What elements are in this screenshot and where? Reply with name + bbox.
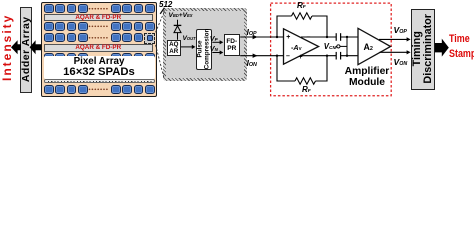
label VOP	[394, 26, 407, 35]
feedback wire bottom left	[277, 56, 295, 81]
wire VON with arrow	[380, 50, 411, 54]
label VON	[394, 58, 408, 67]
pixel array label panel	[44, 56, 155, 79]
VCM node circle	[337, 45, 340, 48]
label VCM	[324, 43, 337, 51]
pixel detail box (hatched border)	[163, 8, 248, 82]
label VP	[210, 35, 218, 42]
AQAR & FD-PR bar 1	[44, 14, 154, 21]
FD-PR block	[224, 34, 241, 56]
feedback wire bottom right	[316, 56, 328, 81]
SPAD row 4	[0, 0, 474, 1]
label -AV	[291, 44, 302, 51]
AQ/AR block	[167, 40, 182, 56]
label RF bottom	[302, 86, 311, 94]
pixel array label line 1	[44, 57, 155, 67]
bus slash	[160, 8, 164, 14]
SPAD row dots row2	[89, 25, 108, 27]
amplifier module label	[330, 66, 404, 89]
timing discriminator label	[412, 12, 434, 86]
pulse compression block	[196, 29, 213, 70]
resistor RF bottom	[295, 78, 315, 84]
adder array box	[20, 7, 33, 94]
label VN	[210, 45, 218, 52]
wire VP with arrow	[212, 40, 223, 44]
row continuation dotted bar	[44, 79, 155, 83]
label VBD+VEX	[169, 13, 193, 20]
label ION	[247, 59, 257, 68]
SPAD row 5	[0, 0, 474, 1]
feedback wire top left	[277, 16, 292, 37]
highlighted pixel	[144, 33, 154, 45]
SPAD diode	[174, 25, 182, 39]
dashed zoom line bottom	[156, 45, 164, 78]
capacitor bottom	[336, 52, 358, 60]
arrow pixel->adder	[30, 40, 42, 54]
SPAD diode wire top	[177, 20, 179, 26]
label VOUT	[183, 36, 196, 43]
wire VN with arrow	[212, 50, 223, 54]
SPAD row dots row3	[89, 37, 108, 39]
arrow to time stamp	[435, 39, 449, 57]
pixel array box	[41, 2, 157, 97]
resistor RF top	[292, 13, 312, 19]
highlighted pixel SPAD	[147, 35, 153, 42]
AQAR & FD-PR bar 2	[44, 44, 154, 51]
op-amp AV signs	[286, 34, 290, 41]
SPAD row 2	[0, 0, 474, 1]
label A2	[364, 43, 373, 52]
SPAD row dots row5	[89, 88, 108, 90]
op-amp AV	[284, 29, 319, 64]
intensity label	[1, 17, 13, 81]
SPAD row 1	[0, 0, 474, 1]
timing discriminator box	[411, 9, 435, 90]
svg overlay: wires and symbols	[0, 0, 474, 108]
capacitor top	[336, 33, 358, 41]
junction dots feedback taps	[276, 36, 328, 57]
op-amp A2	[358, 28, 391, 64]
SPAD row 3	[0, 0, 474, 1]
op-amp AV output wire bottom	[301, 55, 336, 57]
feedback wire top right	[312, 16, 327, 37]
op-amp AV output wire top	[301, 36, 336, 38]
pulse compression label	[197, 29, 211, 70]
wire VOUT with arrow	[181, 45, 195, 49]
arrow adder->intensity	[11, 40, 21, 54]
SPAD row dots row1	[89, 8, 108, 10]
adder array label	[21, 12, 32, 86]
pixel array label line 2	[44, 67, 155, 78]
wire ION with arrow	[240, 54, 283, 58]
VCM wire	[340, 37, 347, 56]
label IOP	[247, 28, 257, 37]
dashed zoom line top	[156, 10, 165, 33]
wire IOP with arrow	[240, 35, 283, 39]
amplifier module dashed box	[271, 3, 392, 96]
time stamp label	[449, 32, 474, 62]
label RF top	[297, 2, 306, 10]
wire VOP with arrow	[379, 37, 411, 41]
bus label 512	[159, 1, 172, 9]
VCM junction dots	[346, 36, 348, 57]
